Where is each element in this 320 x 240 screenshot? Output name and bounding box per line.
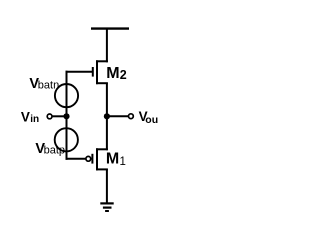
transistor M2 [93,60,108,84]
wire top corner to M2 gate [66,71,93,73]
svg-text:batn: batn [38,80,59,92]
ground [100,203,113,211]
supply rail VDD [91,27,129,29]
wire output [107,115,129,117]
node output junction dot [104,113,110,119]
svg-text:in: in [30,114,39,125]
svg-text:M: M [106,151,119,168]
svg-text:M: M [106,65,119,82]
terminal vin open circle [47,114,52,119]
wire bottom corner to M1 gate bubble [66,158,86,160]
wire M1 source to ground [106,169,108,203]
svg-text:2: 2 [120,68,127,82]
transistor M1 [86,148,108,170]
terminal vou open circle [129,114,134,119]
source Vbatn [55,84,78,107]
node vin junction dot [63,113,69,119]
svg-text:1: 1 [120,156,126,168]
wire vin [52,115,67,117]
svg-text:ou: ou [145,114,158,126]
svg-text:V: V [21,109,30,124]
source Vbatp [55,128,78,151]
wire drain M2 to rail [106,29,108,63]
wire left vertical through sources [66,71,68,160]
wire M2 source down through output node to M1 drain [106,83,108,150]
svg-text:batp: batp [44,144,65,156]
